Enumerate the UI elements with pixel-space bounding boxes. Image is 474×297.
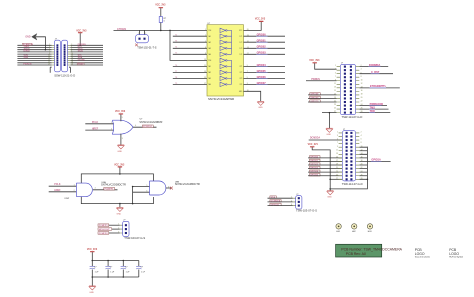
svg-text:10: 10 <box>361 79 363 81</box>
svg-text:3: 3 <box>122 138 123 140</box>
svg-text:C?: C? <box>125 267 127 269</box>
node junction R1 <box>160 30 162 32</box>
U1 output net labels <box>257 34 267 85</box>
svg-text:Pb-Free Symbol: Pb-Free Symbol <box>449 256 463 259</box>
connector J6 TSW-103-07-G-S <box>296 196 302 209</box>
wire ETRGIN to U1 pin 1 <box>114 29 208 31</box>
net label GPIO03 boxed at J4 <box>309 166 320 168</box>
svg-text:18: 18 <box>361 94 363 96</box>
svg-text:2: 2 <box>111 129 112 131</box>
svg-text:VCC_3V3: VCC_3V3 <box>87 249 98 251</box>
wire J4 right stubs to bracket <box>359 147 367 179</box>
U1 output wires GPIO00-GPIO07 <box>244 36 286 84</box>
capacitor C3 <box>121 261 131 278</box>
svg-text:HREF: HREF <box>78 64 85 66</box>
wire U8A input 2 <box>49 191 77 193</box>
svg-text:25: 25 <box>334 108 336 110</box>
mounting hole H1 <box>336 224 341 229</box>
svg-text:5: 5 <box>146 185 147 187</box>
svg-text:C?: C? <box>141 267 143 269</box>
wire GPIO04 <box>308 171 342 173</box>
svg-text:6: 6 <box>361 139 362 141</box>
svg-text:VCC_3V1: VCC_3V1 <box>308 144 319 146</box>
svg-text:DCMDDA: DCMDDA <box>310 137 321 140</box>
U1 VCC pin wire <box>244 22 262 31</box>
svg-text:5: 5 <box>335 72 336 74</box>
svg-text:19: 19 <box>204 59 206 61</box>
svg-text:1: 1 <box>291 197 292 199</box>
svg-text:SN74LVC1G32DBVR: SN74LVC1G32DBVR <box>139 121 162 124</box>
wire DCMMDA <box>359 66 388 68</box>
svg-text:PCB Rev: A0: PCB Rev: A0 <box>346 252 366 256</box>
op-amp U7 OR gate body <box>112 120 133 134</box>
svg-text:3: 3 <box>335 69 336 71</box>
svg-text:17: 17 <box>334 94 336 96</box>
svg-text:21: 21 <box>334 101 336 103</box>
U1 pin numbers right <box>247 29 249 92</box>
capacitor C4 <box>136 261 146 278</box>
J1 right net labels <box>78 44 87 66</box>
svg-text:20: 20 <box>361 97 363 99</box>
svg-text:PWRDN: PWRDN <box>23 64 32 66</box>
connector J4 TSW-114-07-G-D body <box>342 131 355 181</box>
svg-text:1: 1 <box>138 33 139 35</box>
svg-text:1: 1 <box>205 29 206 31</box>
wire PWRGOOD <box>359 105 387 107</box>
mounting hole H2 <box>352 224 357 229</box>
svg-text:MCLKOUT: MCLKOUT <box>99 229 111 231</box>
J1 pin squares <box>56 44 65 66</box>
svg-text:2: 2 <box>145 33 146 35</box>
J4 pin numbers <box>336 132 362 180</box>
svg-text:VCC_3V3: VCC_3V3 <box>255 19 266 21</box>
svg-text:2: 2 <box>118 228 119 230</box>
svg-text:11: 11 <box>204 65 206 67</box>
wire J3 pin 27 to ground <box>322 113 337 129</box>
J1 left net labels <box>23 43 34 66</box>
svg-text:DNP: DNP <box>65 198 70 200</box>
connector J5 TSW-103-07-G-S <box>123 221 129 236</box>
svg-text:TSW-103-07-G-S: TSW-103-07-G-S <box>296 209 317 213</box>
svg-text:11: 11 <box>334 83 336 85</box>
svg-text:23: 23 <box>336 171 338 173</box>
U1 internal pin names <box>208 30 243 93</box>
svg-text:8: 8 <box>205 53 206 55</box>
net label PCMFG1 boxed <box>142 125 153 128</box>
net label GPIO04 boxed at J4 <box>309 170 320 172</box>
svg-text:4: 4 <box>361 69 362 71</box>
J4 pin ticks and squares <box>339 133 360 179</box>
svg-text:2: 2 <box>74 190 75 192</box>
AND gate U8B body <box>150 181 166 195</box>
J3 pin ticks and squares <box>337 67 360 113</box>
J3 pin numbers <box>334 65 362 113</box>
svg-text:6: 6 <box>146 191 147 193</box>
svg-text:17: 17 <box>204 83 206 85</box>
no-connect X on J2 <box>135 44 138 47</box>
wire GPIO00 <box>308 157 342 159</box>
svg-text:20: 20 <box>71 64 73 66</box>
wire J4 bottom loop <box>330 147 367 189</box>
svg-text:13: 13 <box>204 71 206 73</box>
svg-text:5: 5 <box>337 139 338 141</box>
wire DCMDDA <box>309 139 343 141</box>
U1 GND pin wire <box>244 91 261 101</box>
svg-text:27: 27 <box>334 111 336 113</box>
svg-text:7: 7 <box>337 142 338 144</box>
wire bottom power rail <box>81 197 153 204</box>
wire cap bottom rail <box>92 276 139 278</box>
PCB number title block <box>336 244 382 257</box>
svg-text:13: 13 <box>334 86 336 88</box>
ground below U7 <box>120 134 122 145</box>
svg-text:15: 15 <box>334 90 336 92</box>
capacitor C1 <box>90 261 100 278</box>
J1 pin ticks <box>52 45 71 65</box>
no-connect X at U8B output <box>170 187 173 190</box>
net label PCMFP1 boxed <box>104 188 115 191</box>
svg-text:VCC_3V3: VCC_3V3 <box>114 164 125 166</box>
svg-text:2: 2 <box>205 35 206 37</box>
J6 pin numbers <box>291 197 292 206</box>
svg-text:1: 1 <box>335 65 336 67</box>
wire C_RST <box>359 73 393 75</box>
wire OE2 branch vertical <box>170 30 207 60</box>
ground at J3 <box>326 128 333 132</box>
wire U8B output <box>166 187 171 189</box>
svg-text:PCMFP2: PCMFP2 <box>99 233 109 235</box>
svg-text:PCMFP1: PCMFP1 <box>105 189 115 191</box>
net label SDA boxed at J6 <box>270 196 276 198</box>
wire U8A output <box>93 189 118 191</box>
wire label underlines <box>256 36 386 161</box>
svg-text:GND: GND <box>327 197 332 199</box>
svg-text:VCC_3V3: VCC_3V3 <box>309 60 320 62</box>
svg-text:T7: T7 <box>175 71 177 73</box>
net label DCMDDA boxed at J6 <box>270 200 281 202</box>
wire TMS <box>359 108 388 110</box>
wire GPIO10 <box>308 101 337 103</box>
svg-text:2Y4: 2Y4 <box>240 84 243 86</box>
svg-text:2Y3: 2Y3 <box>240 78 243 80</box>
net label GPIO2A boxed at J6 <box>270 203 281 205</box>
net label GPIO10 boxed at J3 <box>310 100 321 102</box>
svg-text:2OE: 2OE <box>208 60 211 62</box>
wire U8A input 1 <box>49 185 77 187</box>
svg-text:9: 9 <box>335 79 336 81</box>
svg-text:4: 4 <box>205 41 206 43</box>
wire ETRGINMTTL <box>359 87 399 89</box>
svg-text:27: 27 <box>336 178 338 180</box>
svg-text:TSW-114-07-G-D: TSW-114-07-G-D <box>342 115 363 119</box>
net label GPIO01 boxed at J4 <box>309 159 320 161</box>
svg-text:TSW-103-07-G-S: TSW-103-07-G-S <box>124 236 145 240</box>
wire U7 input 1 <box>85 123 114 125</box>
wire GPIO02 <box>308 164 342 166</box>
svg-text:2: 2 <box>291 200 292 202</box>
svg-text:19: 19 <box>336 164 338 166</box>
wire GPIO1A <box>367 160 390 162</box>
J1 pin numbers <box>48 44 73 66</box>
svg-text:PCMFP1: PCMFP1 <box>99 225 109 227</box>
svg-text:8: 8 <box>361 142 362 144</box>
svg-text:T8: T8 <box>175 77 177 79</box>
svg-text:DVDD: DVDD <box>24 51 31 53</box>
svg-text:GPIO1A: GPIO1A <box>371 158 381 161</box>
svg-text:4: 4 <box>361 135 362 137</box>
wire U7 output <box>133 126 157 128</box>
svg-text:SN74LVC2G08DCTR: SN74LVC2G08DCTR <box>101 182 126 186</box>
wire GPIO01 <box>308 160 342 162</box>
svg-text:T6: T6 <box>175 65 177 67</box>
svg-text:SN74LVC2G08DCTR: SN74LVC2G08DCTR <box>175 182 200 186</box>
wire top power rail <box>81 174 153 183</box>
svg-text:XHS: XHS <box>24 57 29 59</box>
svg-text:LOGO: LOGO <box>449 252 459 256</box>
svg-text:T2: T2 <box>175 35 177 37</box>
svg-text:GND: GND <box>25 37 30 39</box>
U1 pin numbers left <box>204 29 206 85</box>
off-page connector arrow <box>32 34 37 40</box>
svg-text:9: 9 <box>337 146 338 148</box>
wire SDA <box>268 197 293 199</box>
svg-text:1: 1 <box>337 132 338 134</box>
svg-text:TSM-102-01-T-S: TSM-102-01-T-S <box>137 46 157 50</box>
net label PCMFP1 boxed at J5 <box>98 224 109 227</box>
svg-text:T4: T4 <box>175 47 177 49</box>
svg-text:7: 7 <box>335 76 336 78</box>
svg-text:1Y1: 1Y1 <box>240 36 243 38</box>
net label GPIO05 boxed at J4 <box>309 174 320 176</box>
svg-text:LOGO: LOGO <box>415 252 425 256</box>
svg-text:1: 1 <box>118 224 119 226</box>
ground below caps <box>91 277 93 286</box>
net label GPIO02 boxed at J4 <box>309 163 320 165</box>
svg-text:VCC_3V3: VCC_3V3 <box>155 5 166 7</box>
svg-text:SSW-110-21-G-D: SSW-110-21-G-D <box>54 74 75 78</box>
svg-text:1OE: 1OE <box>208 30 211 32</box>
wire GPIO2A <box>268 205 293 207</box>
ground below U8 <box>119 204 121 208</box>
svg-text:1Y2: 1Y2 <box>240 42 243 44</box>
svg-text:1Y4: 1Y4 <box>240 54 243 56</box>
J6 pin ticks <box>293 198 296 205</box>
svg-text:11: 11 <box>336 149 338 151</box>
wire cap top rail <box>92 260 139 262</box>
svg-text:C?: C? <box>110 267 112 269</box>
capacitor C2 <box>105 261 115 278</box>
U1 body SN74LVC244APWR <box>207 25 244 96</box>
svg-text:19: 19 <box>334 97 336 99</box>
svg-text:PCMFG1: PCMFG1 <box>143 126 153 128</box>
mounting hole H3 <box>367 224 372 229</box>
svg-text:T9: T9 <box>175 83 177 85</box>
svg-text:GND: GND <box>117 151 122 153</box>
net label GPIO00 boxed at J4 <box>309 156 320 158</box>
wire U7 input 2 <box>85 129 114 131</box>
svg-text:2Y2: 2Y2 <box>240 72 243 74</box>
U1 buffer symbols <box>220 28 232 86</box>
wire U8B input bracket <box>133 187 150 204</box>
svg-text:3: 3 <box>291 204 292 206</box>
net label GPIO08 boxed at J3 <box>310 93 321 95</box>
svg-text:SIOD: SIOD <box>78 51 84 53</box>
svg-text:25: 25 <box>336 174 338 176</box>
U1 input net stubs labels <box>175 35 177 85</box>
J5 pin numbers <box>118 224 119 234</box>
node dots cap rails <box>92 260 125 278</box>
wire GPIO05 <box>308 175 342 177</box>
svg-text:GND: GND <box>89 292 94 294</box>
wire GPIO03 <box>308 168 342 170</box>
svg-text:Texas Instruments: Texas Instruments <box>415 256 430 259</box>
svg-text:3: 3 <box>118 231 119 233</box>
net label GPIO09 boxed at J3 <box>310 96 321 98</box>
svg-text:22: 22 <box>361 101 363 103</box>
svg-text:19: 19 <box>48 64 50 66</box>
svg-text:GND: GND <box>258 107 263 109</box>
transistor-like AND gate U8A body <box>76 183 92 197</box>
svg-text:17: 17 <box>336 160 338 162</box>
connector J3 TSW-114-07-G-D body <box>340 64 355 114</box>
svg-text:5: 5 <box>122 117 123 119</box>
J1 bottom stubs <box>50 67 70 73</box>
svg-text:6: 6 <box>205 47 206 49</box>
wire GPIO08 <box>308 94 337 96</box>
svg-text:8: 8 <box>361 76 362 78</box>
node: arrow junction <box>45 49 47 51</box>
svg-text:VSYNC: VSYNC <box>78 59 86 61</box>
svg-text:21: 21 <box>336 167 338 169</box>
svg-text:SN74LVC244APWR: SN74LVC244APWR <box>208 97 234 101</box>
wire GPIO09 <box>308 97 337 99</box>
svg-text:TSW-114-07-G-D: TSW-114-07-G-D <box>342 182 363 186</box>
wire rows J1 right <box>70 45 103 65</box>
wire PWREN <box>306 80 337 82</box>
U1 input wires rows 2-5 <box>173 36 207 54</box>
svg-text:13: 13 <box>336 153 338 155</box>
svg-text:12: 12 <box>361 83 363 85</box>
svg-text:GND: GND <box>326 134 331 136</box>
svg-text:15: 15 <box>336 156 338 158</box>
J5 pin ticks <box>120 225 123 233</box>
wire rows J1 left <box>17 45 51 65</box>
svg-text:GND: GND <box>117 213 122 215</box>
jumper J2 TSM-102-01-T-S <box>140 30 145 34</box>
svg-text:3: 3 <box>337 135 338 137</box>
svg-text:C?: C? <box>94 267 96 269</box>
svg-text:2: 2 <box>361 132 362 134</box>
svg-text:1: 1 <box>74 185 75 187</box>
ground at U1 <box>257 101 264 105</box>
ground at J4 <box>329 189 331 191</box>
U1 input wires rows 7-10 <box>173 66 207 84</box>
wire TDO <box>359 112 390 114</box>
net label MCLKOUT boxed at J5 <box>98 228 112 231</box>
svg-text:VCC_3V3: VCC_3V3 <box>115 111 126 113</box>
svg-text:1Y3: 1Y3 <box>240 48 243 50</box>
node junction OE2 branch <box>169 30 171 32</box>
net label PCMFP2 boxed at J5 <box>98 232 109 235</box>
connector J1 SSW-110-21-G-D body <box>55 40 68 72</box>
svg-text:T3: T3 <box>175 41 177 43</box>
svg-text:1: 1 <box>111 122 112 124</box>
svg-text:4: 4 <box>95 187 96 189</box>
svg-text:PCB Number: TSW_TM4CDCCAMERA: PCB Number: TSW_TM4CDCCAMERA <box>341 247 402 251</box>
svg-text:16: 16 <box>361 90 363 92</box>
svg-text:T5: T5 <box>175 53 177 55</box>
svg-text:15: 15 <box>204 77 206 79</box>
wire J4 pin 27 stub <box>330 178 342 180</box>
svg-text:2Y1: 2Y1 <box>240 66 243 68</box>
wires J5 <box>109 225 120 233</box>
wire DCMDDA <box>268 201 293 203</box>
svg-text:23: 23 <box>334 104 336 106</box>
resistor R1 <box>160 8 162 16</box>
